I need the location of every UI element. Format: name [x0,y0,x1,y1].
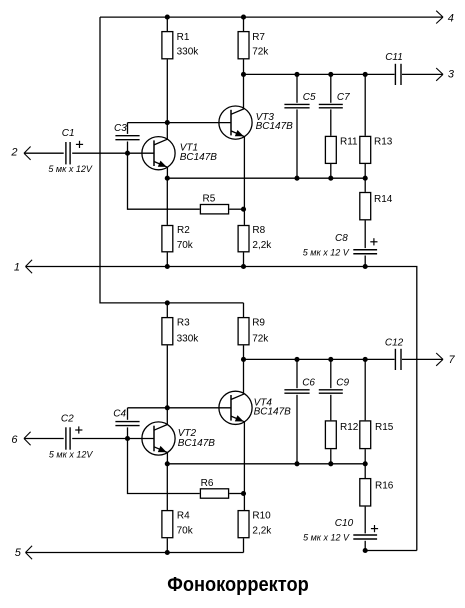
svg-text:C1: C1 [62,128,75,139]
svg-text:6: 6 [11,434,18,446]
svg-text:R14: R14 [374,194,393,205]
svg-text:5 мк x 12V: 5 мк x 12V [49,449,93,459]
svg-text:BC147B: BC147B [180,152,218,163]
svg-text:7: 7 [449,354,456,366]
svg-text:Фонокорректор: Фонокорректор [167,574,309,596]
svg-text:2: 2 [10,147,17,159]
svg-text:R1: R1 [177,32,190,43]
svg-text:C5: C5 [303,92,316,103]
svg-text:R16: R16 [375,481,394,492]
svg-text:2,2k: 2,2k [252,525,272,536]
svg-text:3: 3 [448,69,455,81]
svg-text:5 мк x 12 V: 5 мк x 12 V [303,247,350,257]
svg-text:4: 4 [448,12,454,24]
svg-text:2,2k: 2,2k [252,240,272,251]
svg-text:C3: C3 [114,123,127,134]
svg-text:R7: R7 [252,32,265,43]
svg-text:R5: R5 [203,194,216,205]
svg-text:BC147B: BC147B [254,407,292,418]
svg-text:R9: R9 [252,317,265,328]
svg-text:330k: 330k [177,333,200,344]
svg-text:R4: R4 [177,511,190,522]
svg-text:R11: R11 [340,137,358,148]
svg-text:1: 1 [14,261,20,273]
svg-text:C12: C12 [385,338,404,349]
svg-text:C7: C7 [337,92,350,103]
svg-text:5 мк x 12 V: 5 мк x 12 V [303,533,350,543]
svg-text:BC147B: BC147B [178,438,216,449]
svg-text:R2: R2 [177,225,190,236]
svg-text:70k: 70k [177,240,194,251]
svg-text:72k: 72k [252,333,269,344]
svg-text:R6: R6 [201,478,214,489]
svg-text:C11: C11 [385,52,403,63]
svg-text:R8: R8 [252,225,265,236]
svg-text:C10: C10 [335,518,354,529]
svg-text:R10: R10 [252,511,271,522]
svg-text:C9: C9 [336,377,349,388]
svg-text:R15: R15 [375,422,394,433]
svg-text:330k: 330k [177,46,200,57]
svg-text:C6: C6 [302,377,315,388]
svg-text:C4: C4 [113,408,126,419]
svg-text:5: 5 [15,547,22,559]
svg-text:R12: R12 [340,422,359,433]
svg-text:5 мк x 12V: 5 мк x 12V [48,164,92,174]
svg-text:C8: C8 [335,233,348,244]
svg-text:R3: R3 [177,317,190,328]
svg-text:R13: R13 [374,137,393,148]
svg-text:72k: 72k [252,46,269,57]
svg-text:BC147B: BC147B [256,121,294,132]
svg-text:70k: 70k [177,525,194,536]
svg-text:C2: C2 [61,413,74,424]
